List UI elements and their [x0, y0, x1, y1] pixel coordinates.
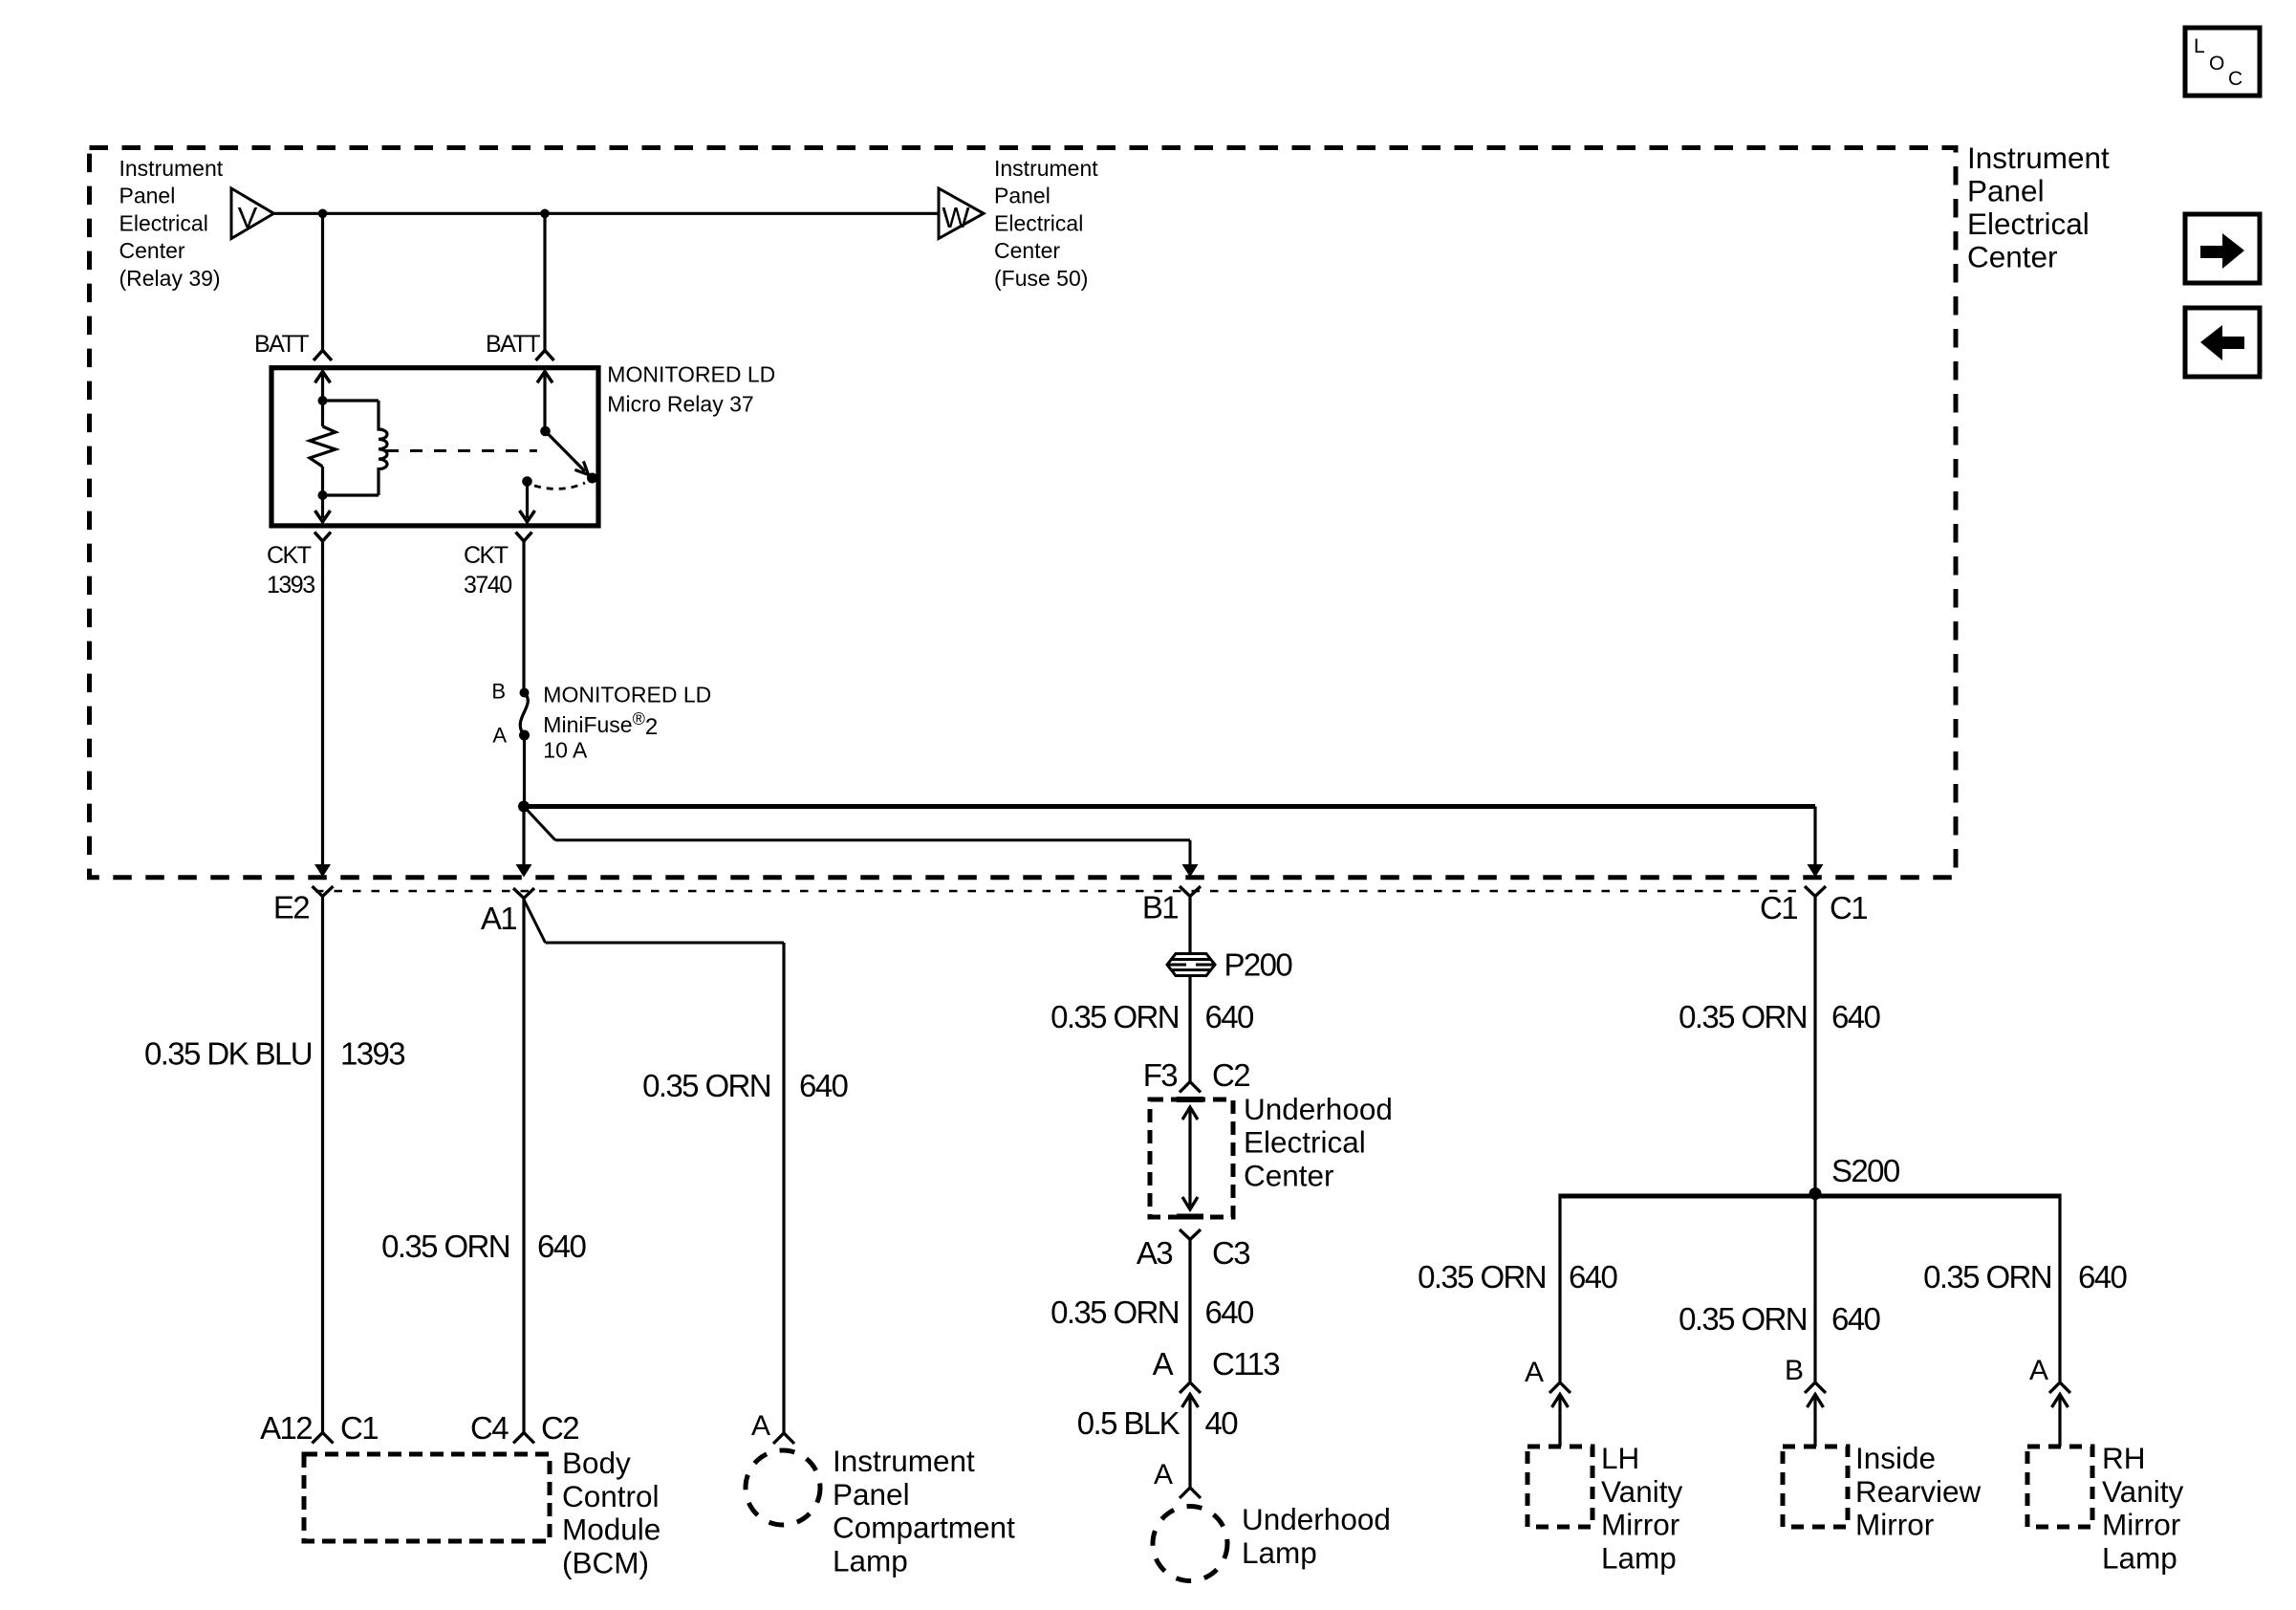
svg-text:Vanity: Vanity [2102, 1474, 2183, 1509]
svg-text:C1: C1 [1830, 890, 1867, 925]
wire: drop to right BATT [543, 213, 546, 350]
svg-text:CKT: CKT [464, 542, 509, 569]
svg-text:Rearview: Rearview [1855, 1474, 1982, 1509]
svg-text:Instrument: Instrument [1967, 141, 2110, 175]
wire: coil top link [323, 399, 379, 402]
connector triangle W [939, 188, 984, 239]
svg-text:640: 640 [1205, 999, 1255, 1034]
label: MONITORED LD MiniFuse 2 10 A [543, 683, 711, 763]
wire: S200 distribution bus [1560, 1194, 2060, 1199]
UEC feed-through element [1177, 1099, 1203, 1217]
arrow into boundary at E2 [314, 864, 331, 878]
svg-text:MONITORED LD: MONITORED LD [543, 683, 711, 707]
svg-text:Vanity: Vanity [1601, 1474, 1682, 1509]
svg-text:P200: P200 [1224, 947, 1293, 983]
svg-text:Underhood: Underhood [1244, 1092, 1393, 1126]
connector chevron and arrow at RH vanity [2049, 1382, 2070, 1447]
svg-text:Electrical: Electrical [119, 210, 208, 235]
svg-text:A: A [1525, 1357, 1544, 1388]
svg-text:C113: C113 [1212, 1346, 1279, 1382]
svg-text:0.35 ORN: 0.35 ORN [1679, 1301, 1807, 1337]
svg-text:C: C [2228, 68, 2242, 90]
svg-text:BATT: BATT [254, 331, 309, 358]
harness in-line connector dashed line [315, 890, 1807, 893]
svg-text:Instrument: Instrument [833, 1444, 975, 1478]
underhood lamp dashed circle [1153, 1507, 1227, 1581]
label: Instrument Panel Compartment Lamp [833, 1444, 1015, 1577]
svg-text:Lamp: Lamp [2102, 1540, 2177, 1575]
svg-text:A1: A1 [481, 901, 516, 936]
label: Instrument Panel Electrical Center (right, outside boundary) [1967, 141, 2110, 274]
svg-text:Center: Center [1967, 240, 2058, 274]
label: RH Vanity Mirror Lamp [2102, 1441, 2183, 1575]
label: LH Vanity Mirror Lamp [1601, 1441, 1682, 1575]
relay actuator dashed link [386, 449, 537, 452]
connector chevron at right BATT [536, 351, 554, 361]
svg-text:V: V [238, 201, 258, 234]
svg-text:B: B [491, 680, 506, 704]
svg-text:C1: C1 [340, 1410, 378, 1446]
svg-text:1393: 1393 [267, 572, 314, 598]
svg-text:640: 640 [1205, 1295, 1255, 1330]
svg-text:640: 640 [1831, 1301, 1881, 1337]
node: fuse terminal A [519, 730, 530, 741]
svg-text:C1: C1 [1760, 890, 1797, 925]
svg-text:Panel: Panel [833, 1477, 910, 1512]
svg-text:0.35 ORN: 0.35 ORN [1679, 999, 1807, 1034]
svg-text:Panel: Panel [994, 184, 1051, 208]
connector chevron at BCM pin C4 [513, 1433, 534, 1444]
wire: C1 drop to boundary [1813, 807, 1816, 866]
svg-text:640: 640 [799, 1068, 849, 1103]
wire: B1 to P200 [1188, 897, 1191, 954]
instrument panel electrical center dashed boundary [90, 148, 1957, 878]
wire: drop to left BATT [321, 213, 324, 350]
connector chevron at left BATT [314, 351, 332, 361]
node: switch arm end [587, 473, 597, 484]
resistor inside relay [310, 401, 336, 495]
connector chevron and arrow at IRM [1805, 1382, 1826, 1447]
svg-text:3740: 3740 [464, 572, 511, 598]
wire: fuse A down to junction [523, 735, 526, 807]
relay coil-side output arrow (down) [315, 495, 331, 522]
arrow into boundary at C1 [1808, 864, 1824, 878]
svg-text:0.35 ORN: 0.35 ORN [1051, 1295, 1179, 1330]
wire: diagonal from A1 to lamp branch [524, 900, 546, 943]
fuse element MiniFuse 2 [520, 693, 528, 736]
wire: A1 to BCM [522, 899, 525, 1433]
svg-text:Control: Control [562, 1479, 660, 1513]
label: Instrument Panel Electrical Center (Fuse 50) [994, 156, 1098, 291]
svg-text:Micro Relay 37: Micro Relay 37 [607, 392, 753, 417]
svg-text:Instrument: Instrument [994, 156, 1098, 181]
wire: feed to B1 [555, 838, 1190, 841]
connector triangle V [231, 188, 274, 239]
svg-text:A: A [492, 723, 507, 747]
svg-text:LH: LH [1601, 1441, 1639, 1475]
wire: CKT 1393 down to boundary [321, 541, 324, 865]
wire: lamp branch drop [782, 943, 785, 1433]
svg-text:Instrument: Instrument [119, 156, 224, 181]
svg-text:Underhood: Underhood [1242, 1502, 1391, 1536]
node: splice S200 [1809, 1187, 1822, 1200]
splice P200 symbol [1167, 954, 1215, 976]
body control module dashed box [304, 1454, 550, 1541]
connector chevron and arrow at LH vanity [1549, 1382, 1570, 1447]
wire: C1 to S200 and on to mirror [1813, 897, 1816, 1383]
svg-text:Center: Center [994, 238, 1060, 263]
connector Y at B1 [1180, 886, 1201, 897]
connector Y at A1 [513, 888, 534, 899]
label: MONITORED LD Micro Relay 37 [607, 361, 775, 416]
LOC page symbol box [2185, 28, 2260, 96]
right-arrow nav box [2185, 214, 2260, 283]
svg-text:C4: C4 [470, 1410, 509, 1446]
svg-text:Inside: Inside [1855, 1441, 1936, 1475]
label: CKT 3740 [464, 542, 511, 598]
svg-text:0.35 DK BLU: 0.35 DK BLU [144, 1036, 312, 1072]
svg-text:B: B [1785, 1355, 1803, 1386]
svg-text:Panel: Panel [119, 184, 176, 208]
svg-text:Module: Module [562, 1512, 661, 1547]
svg-text:640: 640 [1831, 999, 1881, 1034]
node: relay coil top [318, 396, 328, 405]
wire: junction down to A1 [522, 807, 525, 866]
svg-text:0.35 ORN: 0.35 ORN [1418, 1259, 1546, 1295]
connector Y at C1 [1805, 886, 1826, 897]
relay switch output arrow (down) [520, 482, 535, 522]
svg-text:C2: C2 [1212, 1057, 1249, 1093]
label: Inside Rearview Mirror [1855, 1441, 1982, 1542]
svg-text:E2: E2 [273, 890, 309, 925]
svg-text:1393: 1393 [340, 1036, 404, 1072]
svg-text:MONITORED LD: MONITORED LD [607, 361, 775, 386]
svg-text:Panel: Panel [1967, 174, 2045, 208]
svg-text:Electrical: Electrical [1244, 1125, 1366, 1160]
wire: coil bottom link [323, 493, 379, 496]
svg-text:RH: RH [2102, 1441, 2146, 1475]
connector chevron at BCM pin A12 [313, 1433, 334, 1444]
svg-text:(Relay 39): (Relay 39) [119, 266, 221, 291]
svg-text:B1: B1 [1142, 890, 1178, 925]
svg-text:(BCM): (BCM) [562, 1545, 649, 1579]
svg-text:Body: Body [562, 1446, 631, 1480]
svg-text:W: W [942, 201, 970, 234]
svg-text:Center: Center [119, 238, 185, 263]
svg-text:Mirror: Mirror [1855, 1508, 1934, 1542]
svg-text:A: A [751, 1410, 770, 1442]
wire: lamp branch horizontal [546, 942, 785, 945]
RH vanity mirror lamp dashed box [2027, 1447, 2092, 1527]
node: junction dot right BATT [540, 209, 550, 219]
wire: P200 to F3 [1188, 976, 1191, 1081]
label: Underhood Electrical Center [1244, 1092, 1393, 1193]
svg-text:Lamp: Lamp [1242, 1535, 1317, 1570]
arrow into boundary at B1 [1182, 864, 1199, 878]
svg-text:O: O [2209, 53, 2224, 75]
wire: bold feed to C1 [524, 804, 1815, 809]
svg-text:Mirror: Mirror [2102, 1508, 2180, 1542]
relay switch arm with arrowhead [546, 431, 589, 475]
wire: RH vanity drop [2058, 1194, 2061, 1383]
wire: diagonal to B1 feed [524, 807, 555, 840]
node: fuse terminal B [520, 688, 530, 698]
wire: main feed V to W [274, 212, 940, 215]
relay 37 box [271, 368, 598, 526]
svg-text:0.35 ORN: 0.35 ORN [381, 1229, 509, 1264]
connector Y at UEC A3 [1180, 1229, 1201, 1240]
switch travel dashed arc [534, 483, 585, 489]
svg-text:0.35 ORN: 0.35 ORN [1923, 1259, 2051, 1295]
connector chevron at IP compartment lamp [773, 1433, 794, 1444]
svg-text:L: L [2194, 35, 2205, 57]
node: switch pivot [540, 426, 551, 437]
svg-text:C2: C2 [541, 1410, 578, 1446]
connector chevron at UEC F3 [1180, 1082, 1201, 1093]
left-arrow nav box [2185, 308, 2260, 377]
LH vanity mirror lamp dashed box [1527, 1447, 1592, 1527]
svg-text:640: 640 [2078, 1259, 2128, 1295]
svg-text:F3: F3 [1143, 1057, 1178, 1093]
label: Instrument Panel Electrical Center (Relay 39) [119, 156, 224, 291]
svg-text:40: 40 [1205, 1405, 1239, 1441]
node: feed junction [518, 801, 530, 813]
instrument panel compartment lamp dashed circle [746, 1450, 820, 1525]
wire: E2 to BCM [321, 897, 324, 1433]
connector Y below relay left [314, 533, 331, 542]
connector Y below relay right [516, 533, 532, 542]
node: junction dot left BATT [318, 209, 328, 219]
wire: LH vanity drop [1558, 1194, 1561, 1383]
svg-text:A: A [2029, 1355, 2048, 1386]
wire: CKT 3740 down to fuse [522, 541, 525, 692]
label: Underhood Lamp [1242, 1502, 1391, 1570]
svg-text:Lamp: Lamp [833, 1543, 908, 1577]
inside rearview mirror dashed box [1783, 1447, 1848, 1527]
node: switch stationary contact [522, 476, 532, 487]
svg-text:A12: A12 [260, 1410, 312, 1446]
svg-text:Mirror: Mirror [1601, 1508, 1679, 1542]
svg-text:Lamp: Lamp [1601, 1540, 1677, 1575]
svg-text:CKT: CKT [267, 542, 312, 569]
node: relay coil bottom [318, 490, 328, 500]
svg-text:Electrical: Electrical [994, 210, 1083, 235]
svg-text:Compartment: Compartment [833, 1511, 1015, 1545]
svg-text:A: A [1154, 1459, 1173, 1490]
svg-text:A: A [1153, 1346, 1174, 1382]
label: Body Control Module (BCM) [562, 1446, 661, 1579]
svg-text:C3: C3 [1212, 1235, 1249, 1271]
connector Y at E2 [313, 886, 334, 897]
relay coil-side pin arrow (up) [315, 372, 331, 401]
connector chevron at underhood lamp [1180, 1488, 1201, 1498]
svg-text:S200: S200 [1831, 1153, 1900, 1188]
svg-text:640: 640 [1569, 1259, 1618, 1295]
svg-text:0.5 BLK: 0.5 BLK [1077, 1405, 1180, 1441]
svg-text:Center: Center [1244, 1158, 1334, 1192]
connector C113 chevron and arrow [1180, 1382, 1201, 1488]
arrow into boundary at A1 [516, 864, 532, 878]
svg-text:640: 640 [537, 1229, 587, 1264]
wire: B1 drop to boundary [1189, 840, 1192, 865]
svg-text:0.35 ORN: 0.35 ORN [642, 1068, 770, 1103]
label: CKT 1393 [267, 542, 314, 598]
svg-text:(Fuse 50): (Fuse 50) [994, 266, 1088, 291]
underhood electrical center dashed box [1150, 1099, 1233, 1217]
svg-text:10 A: 10 A [543, 738, 588, 763]
svg-text:A3: A3 [1137, 1235, 1172, 1271]
svg-text:Electrical: Electrical [1967, 207, 2090, 241]
coil winding [379, 401, 387, 495]
svg-text:BATT: BATT [486, 331, 540, 358]
svg-text:0.35 ORN: 0.35 ORN [1051, 999, 1179, 1034]
wire: A3 to C113 [1188, 1240, 1191, 1383]
relay switch-side pin arrow (up) [537, 372, 552, 431]
